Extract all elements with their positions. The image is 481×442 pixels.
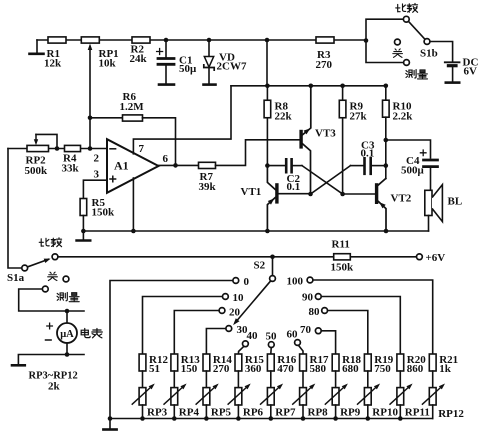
label meter (biao): [92, 329, 103, 338]
svg-text:360: 360: [245, 363, 262, 375]
junction VT2 emitter/rail: [384, 229, 389, 234]
resistor R2: [132, 37, 150, 43]
junction rail/VT3 collector: [309, 84, 314, 89]
resistor R21: [429, 354, 436, 371]
wire to C4: [386, 140, 431, 158]
wire R6 right to output: [143, 118, 176, 166]
svg-text:RP7: RP7: [275, 407, 296, 419]
junction VT2 base/R9: [340, 192, 345, 197]
wire to S2 wiper: [272, 257, 274, 275]
svg-text:150k: 150k: [92, 207, 116, 219]
wire S1a measure to meter: [19, 289, 84, 311]
wire RP4 to rail: [173, 405, 175, 419]
wire R12 to RP3: [142, 371, 144, 388]
resistor R7: [199, 162, 216, 168]
potentiometer RP2: [27, 145, 49, 151]
wire R8 to VT1 collector node: [266, 118, 268, 166]
junction C4 branch: [384, 138, 389, 143]
resistor R6: [123, 115, 143, 121]
terminal S1b measure: [404, 60, 410, 66]
svg-text:150: 150: [181, 363, 198, 375]
wire VT1 base: [279, 193, 311, 195]
label S1a measure (ce): [57, 292, 67, 300]
junction rail/R8: [265, 84, 270, 89]
svg-text:RP4: RP4: [179, 407, 200, 419]
wire input chain: [8, 148, 107, 150]
resistor R17: [300, 354, 307, 371]
op-amp A1: [107, 139, 159, 193]
plus sign pin3: [110, 176, 116, 182]
wire C3 right to VT2 collector line: [372, 165, 386, 167]
wire pos70 to R18: [322, 331, 336, 354]
resistor R12: [139, 354, 146, 371]
resistor R9: [339, 100, 346, 118]
wire to C2 left plate: [267, 165, 285, 167]
wire R21 to RP12: [432, 371, 434, 388]
wire pos60 to R17: [299, 346, 303, 354]
capacitor C4 (electrolytic 500u): [424, 159, 438, 162]
resistor R13: [171, 354, 178, 371]
junction S2 wiper feed: [270, 254, 275, 259]
junction RP10/rail: [366, 416, 371, 421]
wire R15 to RP6: [237, 371, 239, 388]
wire R13 to RP4: [173, 371, 175, 388]
resistor R14: [203, 354, 210, 371]
svg-text:500k: 500k: [25, 165, 49, 177]
resistor R19: [364, 354, 371, 371]
wire pin4 to ground rail: [132, 178, 134, 231]
wire R20 to RP11: [399, 371, 401, 388]
junction RP2 wiper/right: [55, 146, 60, 151]
plus sign meter: [47, 323, 53, 329]
terminal S2 pos 100: [307, 277, 313, 283]
junction pin4/rail: [131, 229, 136, 234]
wire pin7 to inner rail: [133, 86, 231, 154]
svg-text:RP9: RP9: [340, 407, 361, 419]
arrowhead VT3 emitter: [304, 128, 311, 134]
svg-text:RP8: RP8: [308, 407, 329, 419]
rheostat RP9: [332, 388, 339, 405]
svg-text:12k: 12k: [44, 58, 62, 70]
svg-text:860: 860: [407, 363, 424, 375]
svg-text:2CW7: 2CW7: [217, 61, 247, 73]
wire C2 cross-couple to VT2 base node: [302, 166, 343, 194]
wire rail to R9: [342, 86, 344, 101]
svg-text:70: 70: [300, 324, 312, 336]
label S1a compare (bi): [39, 238, 49, 246]
svg-text:580: 580: [310, 363, 327, 375]
wire R5 to ground rail: [82, 216, 84, 232]
rheostat RP4: [171, 388, 178, 405]
resistor R3: [316, 37, 334, 43]
wire VT2 base: [343, 193, 375, 195]
arrowhead RP2 wiper: [34, 139, 38, 145]
wire S1b to battery: [430, 42, 453, 62]
junction C3/VT2 collector: [384, 163, 389, 168]
terminal S1b compare: [403, 16, 409, 22]
svg-text:R11: R11: [332, 239, 350, 251]
svg-text:2: 2: [94, 153, 100, 165]
resistor R11: [334, 254, 351, 260]
svg-text:+6V: +6V: [426, 252, 446, 264]
svg-text:VT2: VT2: [391, 193, 412, 205]
terminal S2 pos 40: [243, 341, 249, 347]
wire RP1 wiper to inverting node: [89, 47, 91, 149]
label meter (dian): [81, 329, 90, 338]
arrowhead RP11: [406, 384, 412, 390]
rheostat RP6: [235, 388, 242, 405]
wire pos100 to R21: [313, 280, 432, 354]
capacitor C1 (electrolytic 50u): [165, 40, 167, 57]
battery DC 6V: [445, 61, 460, 63]
label S1b compare 2: [407, 3, 417, 12]
resistor R8: [264, 100, 271, 118]
transistor VT1: [275, 183, 278, 203]
terminal S2 pos 70: [315, 328, 321, 334]
svg-text:VT3: VT3: [315, 128, 336, 140]
label S1b off (guan): [393, 49, 403, 57]
arrowhead S2 arm: [233, 318, 239, 325]
plus sign C1: [157, 49, 163, 55]
svg-text:1.2M: 1.2M: [120, 101, 145, 113]
wire pos30 to R14: [206, 329, 225, 355]
arrowhead RP8: [309, 384, 315, 390]
svg-text:100: 100: [287, 276, 304, 288]
junction RP9/rail: [333, 416, 338, 421]
minus sign meter: [46, 339, 52, 341]
svg-text:BL: BL: [448, 196, 463, 208]
svg-text:22k: 22k: [275, 111, 293, 123]
wire to S1b compare contact: [366, 19, 403, 40]
svg-text:680: 680: [342, 363, 359, 375]
switch arm S2: [235, 281, 270, 322]
wire compare bus: [58, 256, 333, 258]
svg-text:0.1: 0.1: [287, 181, 301, 193]
capacitor C3 0.1: [363, 158, 366, 174]
transistor VT2: [375, 183, 378, 204]
terminal S1a off: [63, 276, 69, 282]
ground G2 (mid rail): [82, 231, 84, 240]
arrowhead VT1 emitter (PNP): [268, 198, 275, 204]
arrowhead S1a arm: [44, 259, 51, 263]
wire RP7 to rail: [270, 405, 272, 419]
terminal S1a compare: [52, 254, 58, 260]
junction meter bottom: [65, 352, 70, 357]
svg-text:750: 750: [374, 363, 391, 375]
terminal S2 pos 10: [223, 294, 229, 300]
terminal S2 pos 90: [315, 294, 321, 300]
svg-text:470: 470: [277, 363, 294, 375]
junction S1b branch: [364, 38, 369, 43]
wire RP9 to rail: [335, 405, 337, 419]
transistor VT3: [299, 130, 302, 149]
terminal +6V: [417, 254, 423, 260]
junction VT1 base/VT3 emitter: [308, 192, 313, 197]
wire RP11 to rail: [399, 405, 401, 419]
wire pos50 to R16: [270, 348, 272, 354]
svg-text:6: 6: [163, 153, 169, 165]
label S1a off (guan): [48, 272, 58, 280]
wire R17 to RP8: [302, 371, 304, 388]
terminal S1a measure: [42, 286, 48, 292]
svg-text:90: 90: [302, 292, 314, 304]
rheostat RP10: [364, 388, 371, 405]
speaker BL: [425, 190, 432, 215]
wire RP3 to rail: [142, 405, 144, 419]
arrowhead VT2 emitter (PNP): [379, 202, 386, 208]
terminal S2 pos 0: [233, 278, 239, 284]
svg-text:20: 20: [229, 307, 241, 319]
svg-text:7: 7: [139, 143, 145, 155]
terminal S2 pos 30: [226, 326, 232, 332]
wire rail to R10: [385, 86, 387, 101]
svg-text:A1: A1: [114, 159, 129, 173]
wire rail to R8: [266, 86, 268, 101]
terminal S2 pos 60: [295, 340, 301, 346]
svg-text:1k: 1k: [439, 363, 452, 375]
switch arm S1b: [409, 21, 425, 39]
junction rail/R9: [340, 84, 345, 89]
svg-text:VT1: VT1: [241, 186, 262, 198]
wire R10 down VT2 collector: [385, 117, 387, 178]
resistor R15: [235, 354, 242, 371]
junction VT1 collector/C2: [265, 163, 270, 168]
wire RP8 to rail: [302, 405, 304, 419]
wire to C3 left plate: [351, 165, 364, 167]
svg-text:2.2k: 2.2k: [393, 111, 414, 123]
wire pos90 to R20: [322, 297, 401, 355]
svg-text:RP12: RP12: [438, 408, 464, 420]
svg-text:RP5: RP5: [211, 407, 232, 419]
svg-text:40: 40: [247, 330, 259, 342]
terminal S1a common: [22, 265, 28, 271]
rheostat RP12: [429, 388, 436, 405]
svg-text:60: 60: [287, 329, 299, 341]
svg-text:RP3: RP3: [147, 407, 168, 419]
wire RP5 to rail: [205, 405, 207, 419]
minus sign pin2: [110, 148, 116, 150]
svg-text:0: 0: [244, 276, 250, 288]
wire R11 to +6V: [350, 256, 416, 258]
junction RP6/rail: [236, 416, 241, 421]
svg-text:S1a: S1a: [7, 272, 25, 284]
junction meter top: [65, 309, 70, 314]
svg-text:80: 80: [309, 306, 321, 318]
svg-text:10k: 10k: [99, 58, 117, 70]
resistor R5: [80, 199, 87, 216]
wire drop to inner rail: [266, 40, 268, 86]
wire R6 left: [90, 117, 123, 119]
terminal S1b off: [395, 39, 401, 45]
wire bottom ground rail: [110, 418, 433, 420]
svg-text:0.1: 0.1: [361, 148, 375, 160]
wire op-amp output: [159, 164, 199, 166]
ground G3 (meter): [12, 364, 25, 367]
arrowhead RP12: [439, 384, 445, 390]
resistor R18: [332, 354, 339, 371]
svg-text:S1b: S1b: [420, 48, 438, 60]
wire pos20 to R13: [174, 311, 218, 355]
junction RP5/rail: [204, 416, 209, 421]
junction rail/R10: [384, 84, 389, 89]
svg-text:6V: 6V: [464, 66, 478, 78]
junction RP3/rail: [140, 416, 145, 421]
junction RP7/rail: [269, 416, 274, 421]
wire mid ground rail: [83, 230, 428, 232]
resistor R10: [383, 100, 390, 117]
wire meter bottom: [66, 343, 68, 355]
resistor R4: [65, 145, 81, 151]
wire R7 to VT3 base: [216, 140, 300, 166]
svg-text:3: 3: [94, 169, 100, 181]
arrowhead RP1 wiper: [88, 44, 93, 50]
label S1b measure (ce): [406, 70, 416, 78]
label S1a compare (jiao): [51, 238, 61, 247]
svg-text:RP10: RP10: [372, 407, 398, 419]
wire pos10 to R12: [143, 297, 223, 355]
arrowhead RP9: [342, 384, 348, 390]
wire RP2 left down to S1a common: [8, 149, 21, 269]
arrowhead RP6: [245, 384, 251, 390]
wire pin3 to R5: [83, 180, 107, 198]
wire C2 right plate: [293, 165, 302, 167]
svg-text:27k: 27k: [350, 111, 368, 123]
label S1b compare (bijiao): [396, 4, 406, 12]
svg-text:33k: 33k: [62, 163, 80, 175]
terminal S2 pos 20: [219, 308, 225, 314]
wire meter to ground: [18, 355, 84, 365]
microammeter (uA meter): [66, 311, 68, 322]
wire RP10 to rail: [367, 405, 369, 419]
terminal S2 wiper: [270, 276, 276, 282]
svg-text:51: 51: [149, 363, 160, 375]
wire inner supply rail: [231, 85, 386, 87]
junction VD top: [207, 38, 212, 43]
svg-text:RP6: RP6: [243, 407, 264, 419]
plus sign C4: [420, 150, 426, 156]
wire R14 to RP5: [205, 371, 207, 388]
arrowhead RP5: [213, 384, 219, 390]
arrowhead RP3: [149, 384, 155, 390]
junction VT1 emitter/rail: [265, 229, 270, 234]
wire R18 to RP9: [335, 371, 337, 388]
rheostat RP3: [139, 388, 146, 405]
wire R19 to RP10: [367, 371, 369, 388]
svg-text:S2: S2: [254, 260, 266, 272]
resistor R16: [267, 354, 274, 371]
wire RP12 to rail: [432, 405, 434, 419]
junction R4/pin2: [88, 146, 93, 151]
arrowhead RP10: [374, 384, 380, 390]
wire C3 cross-couple to VT1 base node: [311, 166, 351, 194]
svg-text:24k: 24k: [130, 53, 148, 65]
label S1b measure (liang): [418, 70, 428, 79]
rheostat RP5: [203, 388, 210, 405]
junction pos0/ground rail: [108, 416, 113, 421]
svg-text:10: 10: [233, 292, 245, 304]
label S1a measure (liang): [69, 293, 79, 302]
wire R9 to VT2 base node: [342, 118, 344, 194]
ground G1 (top left): [36, 40, 38, 52]
wire top supply rail: [37, 39, 364, 41]
junction inverting node / R6: [88, 116, 93, 121]
svg-text:270: 270: [316, 59, 333, 71]
rheostat RP7: [267, 388, 274, 405]
terminal S1b common: [424, 39, 430, 45]
svg-text:39k: 39k: [199, 181, 217, 193]
svg-text:μA: μA: [60, 329, 74, 340]
svg-text:270: 270: [213, 363, 230, 375]
resistor R20: [397, 354, 404, 371]
svg-text:50μ: 50μ: [179, 63, 197, 75]
wire pos40 to R15: [238, 347, 243, 354]
svg-text:RP11: RP11: [405, 407, 430, 419]
junction RP4/rail: [172, 416, 177, 421]
capacitor C2 0.1: [285, 159, 288, 172]
rheostat RP8: [300, 388, 307, 405]
junction RP8/rail: [301, 416, 306, 421]
wire RP2 wiper link: [36, 134, 57, 148]
terminal S2 pos 80: [322, 308, 328, 314]
svg-text:500μ: 500μ: [401, 165, 425, 177]
junction output/R6: [173, 163, 178, 168]
arrowhead RP7: [277, 384, 283, 390]
svg-text:2k: 2k: [48, 381, 61, 393]
rheostat RP11: [397, 388, 404, 405]
zener diode VD 2CW7: [208, 40, 210, 56]
arrowhead RP4: [180, 384, 186, 390]
wire pos0 to ground rail: [110, 281, 232, 419]
svg-text:150k: 150k: [331, 262, 355, 274]
resistor R1: [48, 37, 66, 43]
wire to S1b measure contact: [366, 41, 403, 63]
junction supply drop: [265, 38, 270, 43]
switch arm S1a: [28, 259, 49, 267]
junction R5/rail: [81, 229, 86, 234]
wire R16 to RP7: [270, 371, 272, 388]
terminal S2 pos 50: [268, 342, 274, 348]
junction C1 top: [164, 38, 169, 43]
ground G4 (bottom left): [109, 419, 111, 429]
junction RP11/rail: [398, 416, 403, 421]
wire RP6 to rail: [237, 405, 239, 419]
wire pos80 to R19: [328, 311, 368, 355]
potentiometer RP1: [81, 37, 99, 43]
svg-text:50: 50: [266, 331, 278, 343]
